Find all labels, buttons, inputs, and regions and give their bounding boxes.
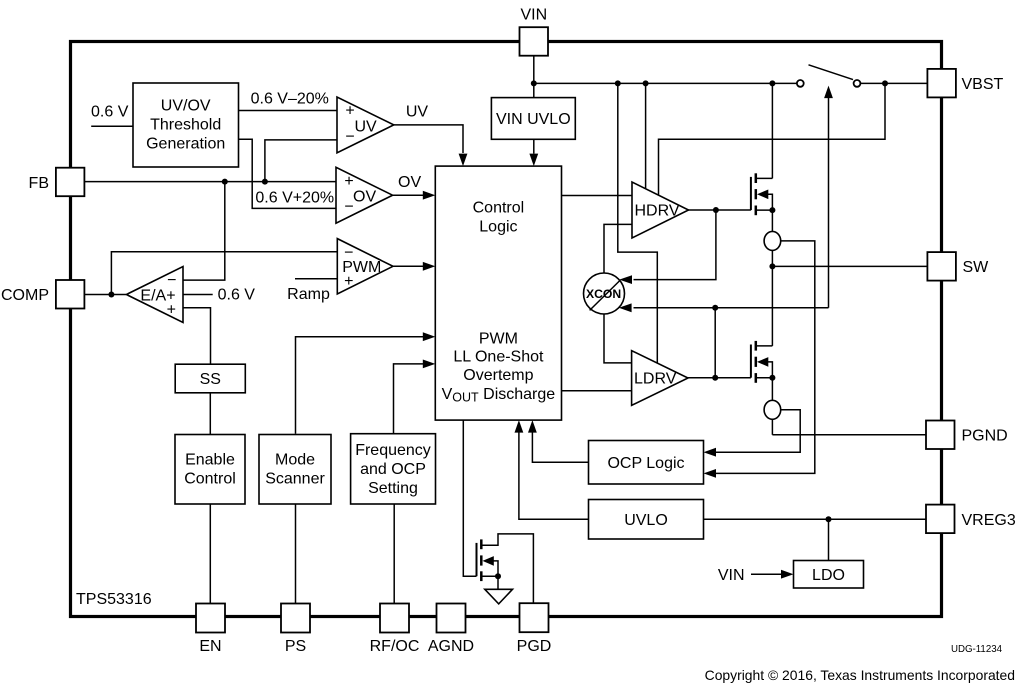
pin EN (bottom) xyxy=(196,604,225,633)
svg-text:Control: Control xyxy=(473,200,525,217)
svg-text:−: − xyxy=(345,128,354,145)
wire Mode Scanner to PS pin xyxy=(295,504,297,604)
pin PS (bottom) xyxy=(281,604,310,633)
svg-text:0.6 V: 0.6 V xyxy=(91,104,129,121)
block U8 OCP Logic xyxy=(589,441,704,485)
block U10 LDO xyxy=(794,561,864,589)
junction Q1 source / SW xyxy=(769,207,775,213)
driver HDRV xyxy=(632,182,689,238)
pin RF/OC (bottom) xyxy=(380,604,409,633)
wire 0.6V stub into threshold gen xyxy=(91,125,133,127)
label 0.6 V-20% xyxy=(251,91,329,108)
svg-text:Overtemp: Overtemp xyxy=(463,367,533,384)
wire SW node to SW pin xyxy=(772,265,927,267)
wire VIN rail down to HDRV supply xyxy=(645,83,647,189)
wire Control Logic to Q3 gate (PGD driver) xyxy=(463,420,476,576)
block U5 Enable Control xyxy=(175,435,245,505)
wire COMP to PWM minus input xyxy=(111,252,337,295)
svg-text:Ramp: Ramp xyxy=(287,286,330,303)
wire OV comparator output to Control Logic xyxy=(393,191,436,200)
label UDG-11234 xyxy=(951,644,1003,655)
wire switch control arrow from LDRV net xyxy=(824,86,833,308)
pin label COMP xyxy=(1,287,49,304)
svg-text:0.6 V: 0.6 V xyxy=(218,287,256,304)
svg-text:AGND: AGND xyxy=(428,638,474,655)
wire Frequency/OCP to Control Logic xyxy=(394,360,436,434)
pin label VBST xyxy=(962,76,1004,93)
junction LDRV output xyxy=(712,375,718,381)
wire Control Logic to HDRV input xyxy=(562,195,633,197)
svg-text:OCP Logic: OCP Logic xyxy=(607,455,684,472)
junction VIN rail / HDRV supply xyxy=(643,80,649,86)
block U6 Mode Scanner xyxy=(259,435,331,505)
label 0.6 V (E/A reference) xyxy=(218,287,256,304)
bootstrap switch S1 xyxy=(797,65,861,87)
svg-text:HDRV: HDRV xyxy=(635,202,680,219)
junction VIN node xyxy=(531,80,537,86)
junction FB/E-A branch xyxy=(222,179,228,185)
junction COMP node xyxy=(108,292,114,298)
transistor Q1 high-side NMOS xyxy=(751,83,773,215)
wire HDRV output to Q1 gate xyxy=(689,209,751,211)
svg-text:OV: OV xyxy=(353,189,376,206)
wire UV comparator output to Control Logic xyxy=(394,125,468,166)
pin label VIN xyxy=(520,7,547,24)
junction FB/UV branch xyxy=(262,179,268,185)
pin label RF/OC xyxy=(370,638,420,655)
svg-text:SS: SS xyxy=(200,371,221,388)
wire UVLO to VREG3 pin xyxy=(704,518,927,520)
svg-text:EN: EN xyxy=(199,638,221,655)
wire SW node down to Q2 drain xyxy=(771,266,773,346)
svg-text:UV: UV xyxy=(354,118,377,135)
svg-text:−: − xyxy=(344,199,353,216)
svg-text:Copyright © 2016, Texas Instru: Copyright © 2016, Texas Instruments Inco… xyxy=(705,667,1015,683)
svg-text:PWM: PWM xyxy=(479,331,518,348)
svg-text:+: + xyxy=(167,301,176,318)
junction Q2 source / PGND net xyxy=(769,375,775,381)
svg-text:TPS53316: TPS53316 xyxy=(76,591,152,608)
svg-text:RF/OC: RF/OC xyxy=(370,638,420,655)
wire threshold gen out1 to UV+ xyxy=(239,110,338,112)
svg-text:FB: FB xyxy=(29,175,49,192)
pin PGND (right) xyxy=(926,421,955,450)
wire Enable Control to EN pin xyxy=(209,504,211,604)
pin label FB xyxy=(29,175,49,192)
wire E/A 0.6V reference stub xyxy=(183,294,213,296)
svg-text:Threshold: Threshold xyxy=(150,117,221,134)
svg-text:+: + xyxy=(345,103,354,120)
svg-text:VBST: VBST xyxy=(962,76,1004,93)
pin COMP (left) xyxy=(56,280,85,309)
pin PGD (bottom) xyxy=(520,603,549,632)
wire COMP pin to E/A output xyxy=(84,294,126,296)
pin label SW xyxy=(963,259,990,276)
wire Frequency/OCP to RF/OC pin xyxy=(393,504,395,604)
wire UVLO output to Control Logic xyxy=(515,420,589,519)
wire E/A plus input to SS xyxy=(183,308,211,364)
svg-text:Control: Control xyxy=(184,471,236,488)
transistor Q2 low-side NMOS xyxy=(751,341,773,383)
pin FB (left) xyxy=(56,168,85,197)
comparator OV xyxy=(336,167,393,223)
svg-text:UV/OV: UV/OV xyxy=(161,98,211,115)
svg-text:and OCP: and OCP xyxy=(360,461,426,478)
comparator UV xyxy=(337,97,394,153)
block U7 Frequency and OCP Setting xyxy=(351,434,436,504)
wire switch to VBST pin xyxy=(860,82,927,84)
svg-text:PGND: PGND xyxy=(962,428,1008,445)
comparator PWM xyxy=(337,239,393,294)
junction VREG3 / LDO xyxy=(826,516,832,522)
svg-text:Frequency: Frequency xyxy=(355,442,431,459)
svg-text:LDRV: LDRV xyxy=(634,370,677,387)
IC boundary TPS53316 xyxy=(71,42,942,617)
svg-text:UVLO: UVLO xyxy=(624,512,668,529)
svg-text:+: + xyxy=(344,173,353,190)
wire FB branch to E/A minus input xyxy=(183,182,225,281)
label UV output xyxy=(406,103,429,120)
pin VIN (top) xyxy=(520,27,549,56)
wire VIN rail down to LDRV supply xyxy=(618,83,658,363)
svg-text:Scanner: Scanner xyxy=(265,471,325,488)
svg-text:0.6 V+20%: 0.6 V+20% xyxy=(255,190,334,207)
pin label PS xyxy=(285,638,306,655)
wire SS to Enable Control xyxy=(209,393,211,435)
junction SW node xyxy=(769,263,775,269)
current sensor CS1 (high side) xyxy=(764,210,781,266)
svg-text:XCON: XCON xyxy=(586,287,621,301)
svg-text:SW: SW xyxy=(963,259,990,276)
svg-text:Generation: Generation xyxy=(146,136,225,153)
svg-text:VIN: VIN xyxy=(520,7,547,24)
wire LDO output up to VREG3 net xyxy=(828,519,830,560)
pin SW (right) xyxy=(927,252,956,281)
block U3 Control Logic xyxy=(435,166,561,420)
svg-text:VREG3: VREG3 xyxy=(962,512,1016,529)
junction VBST / HDRV bootstrap xyxy=(882,80,888,86)
label 0.6 V (threshold gen input) xyxy=(91,104,129,121)
pin label PGD xyxy=(517,638,552,655)
pin label PGND xyxy=(962,428,1008,445)
block U2 VIN UVLO xyxy=(491,98,575,140)
svg-text:OV: OV xyxy=(398,174,421,191)
current sensor CS2 (low side) xyxy=(764,378,781,435)
wire Ramp stub to PWM+ xyxy=(295,278,337,280)
svg-text:Logic: Logic xyxy=(479,219,517,236)
wire PWM comparator output to Control Logic xyxy=(393,262,435,271)
svg-text:0.6 V–20%: 0.6 V–20% xyxy=(251,91,329,108)
label Ramp xyxy=(287,286,330,303)
svg-text:Setting: Setting xyxy=(368,480,418,497)
wire Q3 source to ground xyxy=(497,576,499,589)
wire Control Logic to LDRV input xyxy=(562,390,632,392)
label TPS53316 xyxy=(76,591,152,608)
wire XCON to LDRV upper input xyxy=(604,314,632,363)
transistor Q3 power-good open-drain NMOS xyxy=(477,534,534,603)
junction VIN rail / Q1 drain xyxy=(769,80,775,86)
wire OCP Logic output to Control Logic xyxy=(528,420,589,462)
pin label VREG3 xyxy=(962,512,1016,529)
wire Mode Scanner to Control Logic xyxy=(296,332,436,433)
svg-text:+: + xyxy=(344,273,353,290)
pin VBST (right) xyxy=(927,69,956,98)
driver LDRV xyxy=(632,351,688,406)
pin AGND (bottom) xyxy=(437,604,466,633)
block U1 UV/OV Threshold Generation xyxy=(133,83,239,167)
wire VIN UVLO output to Control Logic xyxy=(529,139,538,166)
pin label AGND xyxy=(428,638,474,655)
wire VIN rail (left of switch) xyxy=(534,82,797,84)
svg-text:PGD: PGD xyxy=(517,638,552,655)
pin label EN xyxy=(199,638,221,655)
block U4 SS xyxy=(175,364,245,393)
junction LDRV feedback node xyxy=(712,305,718,311)
wire threshold gen out2 to OV- xyxy=(239,139,337,208)
wire CS2 sense to OCP Logic upper input xyxy=(704,410,801,457)
ground symbol xyxy=(485,589,513,604)
junction HDRV output xyxy=(713,207,719,213)
wire FB branch to UV- xyxy=(265,140,337,182)
svg-text:LL One-Shot: LL One-Shot xyxy=(453,349,544,366)
junction Q3 source / ground xyxy=(495,573,501,579)
svg-text:LDO: LDO xyxy=(812,567,845,584)
svg-text:COMP: COMP xyxy=(1,287,49,304)
label 0.6 V+20% xyxy=(255,190,334,207)
wire VIN pin down to VIN UVLO xyxy=(533,56,535,98)
svg-text:PS: PS xyxy=(285,638,306,655)
junction VIN rail / HDRV-LDRV supply xyxy=(615,80,621,86)
wire LDRV output to Q2 gate xyxy=(688,377,751,379)
svg-text:Mode: Mode xyxy=(275,452,315,469)
svg-text:VIN UVLO: VIN UVLO xyxy=(496,111,571,128)
pin VREG3 (right) xyxy=(926,505,955,533)
label VIN (LDO input) xyxy=(718,567,745,584)
wire CS1 sense to OCP Logic lower input xyxy=(704,241,815,478)
svg-text:Enable: Enable xyxy=(185,452,235,469)
label copyright xyxy=(705,667,1015,683)
wire Q2 source to PGND pin xyxy=(772,434,926,436)
label OV output xyxy=(398,174,421,191)
op-amp E/A error amplifier xyxy=(126,267,183,323)
wire FB to OV+ xyxy=(85,181,336,183)
wire HDRV output feedback to XCON input 1 xyxy=(619,210,716,284)
cross-conduction block XCON xyxy=(584,273,625,314)
svg-text:UDG-11234: UDG-11234 xyxy=(951,644,1003,655)
wire VIN to LDO with arrow xyxy=(751,570,794,579)
svg-text:UV: UV xyxy=(406,103,429,120)
wire LDRV output feedback to XCON input 2 and switch control xyxy=(619,303,829,377)
wire XCON to HDRV lower input xyxy=(604,224,632,273)
wire VBST bootstrap down to HDRV supply xyxy=(659,83,886,195)
svg-text:VIN: VIN xyxy=(718,567,745,584)
block U9 UVLO xyxy=(589,500,704,540)
